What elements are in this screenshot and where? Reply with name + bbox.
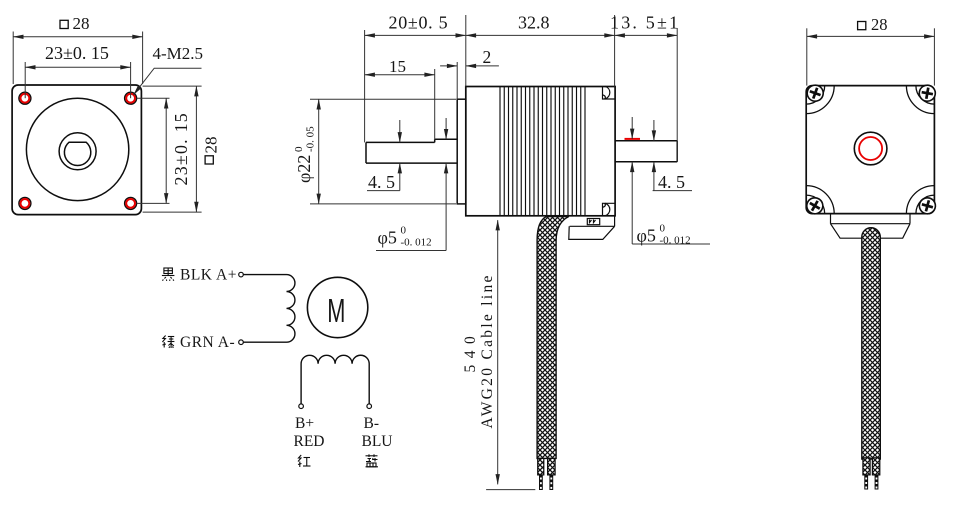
screw BR: [918, 196, 938, 216]
svg-text:13. 5±1: 13. 5±1: [610, 13, 680, 33]
terminal A-: [239, 340, 244, 345]
corner arcs TL: [806, 86, 834, 114]
hanzi BLUE: [366, 454, 379, 467]
pilot boss (phi22 x 2): [457, 99, 466, 204]
shaft boss circle front: [59, 133, 96, 170]
rear shaft red flat mark: [625, 138, 641, 140]
motor circle M: [307, 277, 367, 337]
svg-text:0: 0: [293, 146, 305, 152]
svg-text:AWG20 Cable line: AWG20 Cable line: [479, 273, 496, 428]
corner arcs BL: [806, 186, 834, 214]
svg-text:2: 2: [483, 47, 492, 67]
dim 23±0.15 right side (front view): [137, 98, 170, 203]
label square-28 rear: [858, 15, 888, 34]
svg-text:4. 5: 4. 5: [368, 172, 395, 192]
svg-text:-0. 012: -0. 012: [401, 237, 432, 249]
screw hole BR: [125, 197, 137, 209]
front shaft outline: [366, 139, 457, 163]
screw hole BL: [19, 197, 31, 209]
cable clamp plate under body: [570, 216, 615, 227]
hanzi RED: [298, 455, 311, 467]
rear cable split wires: [863, 458, 870, 475]
dim square-28 right side (front view): [143, 86, 202, 212]
dim 32.8: [466, 15, 615, 87]
svg-text:RED: RED: [294, 433, 325, 450]
dim 4.5 right: [653, 120, 692, 191]
screw TL: [805, 83, 826, 104]
shaft circle with flat front: [64, 142, 90, 165]
wire A-: [243, 341, 286, 343]
dim 4.5 left: [367, 120, 400, 191]
svg-text:0: 0: [401, 225, 407, 237]
svg-text:28: 28: [202, 137, 221, 154]
coil B: [301, 355, 369, 404]
label phi22 rotated: [293, 126, 317, 183]
hanzi BLACK: [162, 268, 175, 281]
rear center red circle: [859, 137, 882, 160]
dim 20±0.5: [365, 30, 466, 142]
terminal B-: [367, 404, 372, 409]
rear cable: [862, 228, 881, 459]
dim 13.5±1: [615, 28, 678, 162]
screw hole TR: [125, 92, 137, 104]
corner arcs TR: [906, 86, 934, 114]
rear bottom plate: [831, 214, 911, 224]
cable guard trapezoid: [569, 226, 615, 239]
svg-text:23±0. 15: 23±0. 15: [45, 43, 109, 63]
dim 15: [365, 69, 435, 139]
svg-text:23±0. 15: 23±0. 15: [171, 112, 191, 185]
rear trapezoid: [831, 224, 911, 239]
dim 540 cable: [486, 220, 535, 490]
leader phi5 left: [376, 118, 446, 251]
svg-text:540: 540: [462, 330, 479, 373]
label square-28 rotated: [202, 137, 221, 165]
motor body square front view: [12, 85, 141, 215]
rear center shaft circle: [854, 132, 887, 165]
svg-text:φ5: φ5: [378, 228, 397, 248]
screw hole TL: [19, 92, 31, 104]
svg-text:4-M2.5: 4-M2.5: [153, 44, 204, 63]
svg-text:B-: B-: [364, 415, 380, 432]
svg-text:B+: B+: [295, 415, 314, 432]
svg-text:BLK A+: BLK A+: [180, 267, 237, 284]
rear wire tails: [864, 475, 878, 490]
coil A: [287, 275, 295, 343]
terminal B+: [299, 404, 304, 409]
svg-text:M: M: [327, 292, 345, 329]
svg-text:20±0. 5: 20±0. 5: [389, 13, 449, 33]
screw BL: [804, 195, 826, 217]
cable split wires: [538, 458, 544, 475]
label 4-M2.5 with leader: [134, 44, 204, 95]
svg-text:28: 28: [73, 14, 90, 33]
svg-text:32.8: 32.8: [518, 13, 550, 33]
svg-text:28: 28: [871, 15, 888, 34]
svg-text:15: 15: [389, 57, 406, 76]
motor body square rear view: [806, 86, 934, 214]
pilot circle front: [26, 98, 128, 200]
svg-text:-0. 012: -0. 012: [660, 235, 691, 247]
terminal A+: [239, 272, 244, 277]
svg-text:φ5: φ5: [637, 226, 656, 246]
dim 28 top (front view): [13, 32, 142, 85]
rear shaft outline: [615, 141, 677, 162]
wire A+: [243, 274, 286, 276]
cable (side view): [537, 217, 569, 459]
label square-28 top: [60, 14, 90, 33]
hanzi GREEN: [162, 336, 174, 349]
svg-text:φ22: φ22: [294, 155, 314, 183]
svg-text:GRN A-: GRN A-: [180, 334, 235, 351]
rear corner post detail bottom: [603, 203, 616, 216]
dim 28 rear: [807, 28, 935, 85]
dim phi22 vertical: [310, 99, 456, 204]
dim 2 (boss): [440, 62, 499, 99]
cooling fins: [500, 87, 585, 216]
leader phi5 right: [632, 117, 710, 244]
svg-text:4. 5: 4. 5: [658, 172, 685, 192]
svg-text:0: 0: [660, 223, 666, 235]
motor body side view: [466, 87, 615, 216]
wire tails: [539, 475, 553, 490]
dim 23±0.15 top (front view): [25, 62, 130, 98]
rear corner post detail top: [603, 86, 616, 99]
svg-text:BLU: BLU: [362, 433, 393, 450]
corner arcs BR: [906, 186, 934, 214]
screw TR: [918, 84, 937, 103]
svg-text:-0. 05: -0. 05: [305, 126, 317, 152]
